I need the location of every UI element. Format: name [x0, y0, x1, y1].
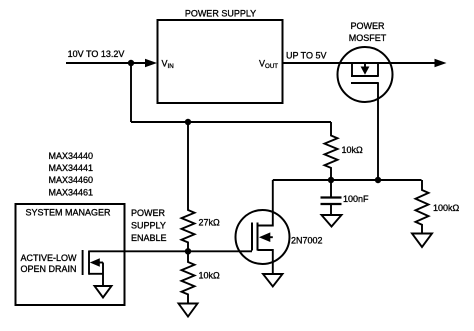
svg-text:POWER: POWER	[131, 208, 166, 218]
wire VOUT rail	[283, 62, 435, 64]
svg-text:SYSTEM MANAGER: SYSTEM MANAGER	[25, 208, 111, 218]
wire enable line	[89, 250, 252, 252]
node junction enable	[185, 248, 191, 254]
capacitor C1 100nF lead	[330, 180, 332, 197]
svg-text:100kΩ: 100kΩ	[433, 203, 460, 213]
svg-text:SUPPLY: SUPPLY	[131, 221, 166, 231]
svg-text:OPEN DRAIN: OPEN DRAIN	[21, 264, 77, 274]
capacitor C1 top plate	[321, 196, 342, 198]
resistor 100k	[416, 180, 429, 234]
transistor Q3 body arrow	[99, 262, 104, 264]
ground below Q2	[263, 274, 283, 287]
transistor Q3 channel bar	[88, 251, 90, 275]
capacitor C1 lower lead	[330, 204, 332, 215]
resistor 27k	[182, 122, 195, 251]
node junction gate	[375, 177, 381, 183]
transistor Q2 channel bar	[257, 223, 259, 251]
svg-text:10kΩ: 10kΩ	[342, 145, 364, 155]
transistor Q1 channel bar	[351, 75, 379, 77]
arrowhead output	[435, 59, 447, 67]
transistor Q2 gate bar	[251, 223, 253, 251]
svg-text:27kΩ: 27kΩ	[199, 218, 221, 228]
svg-text:MAX34460: MAX34460	[49, 175, 94, 185]
node junction 27k branch	[185, 119, 191, 125]
svg-text:100nF: 100nF	[343, 194, 369, 204]
transistor Q1 drain leg	[377, 63, 379, 76]
resistor 10k top right	[325, 122, 338, 180]
arrowhead into VIN	[145, 59, 157, 67]
wire input to VIN	[66, 62, 146, 64]
transistor Q2 source stub	[258, 250, 273, 274]
transistor Q2 2N7002 circle	[236, 210, 290, 264]
wire rail y180	[273, 179, 422, 181]
svg-text:ACTIVE-LOW: ACTIVE-LOW	[21, 253, 78, 263]
transistor Q1 body arrow	[364, 63, 366, 69]
transistor Q3 open drain gate bar	[82, 250, 84, 275]
wire input branch down	[130, 63, 132, 122]
system manager box U2	[16, 204, 125, 305]
svg-text:MAX34461: MAX34461	[49, 187, 94, 197]
svg-text:2N7002: 2N7002	[291, 236, 323, 246]
power supply box U1	[158, 20, 283, 103]
node junction cap	[328, 177, 334, 183]
svg-text:POWER: POWER	[350, 21, 385, 31]
ground below 10k	[179, 304, 198, 317]
svg-text:MAX34440: MAX34440	[49, 151, 94, 161]
transistor Q1 source leg	[351, 63, 353, 76]
transistor Q2 body arrow	[268, 236, 273, 238]
svg-text:MAX34441: MAX34441	[49, 163, 94, 173]
svg-text:10V TO 13.2V: 10V TO 13.2V	[68, 49, 125, 59]
ground below C1	[322, 215, 342, 227]
svg-text:UP TO 5V: UP TO 5V	[286, 51, 327, 61]
transistor Q1 gate bar	[351, 82, 379, 84]
svg-text:10kΩ: 10kΩ	[199, 271, 221, 281]
wire Q3 source down	[102, 263, 104, 287]
transistor Q1 power mosfet circle	[338, 47, 393, 102]
capacitor C1 bottom plate	[321, 203, 342, 205]
transistor Q3 source stub	[89, 273, 103, 275]
transistor Q2 drain stub	[258, 180, 273, 226]
node junction input branch	[128, 60, 134, 66]
svg-text:ENABLE: ENABLE	[131, 233, 167, 243]
wire rail y122	[131, 121, 331, 123]
svg-text:POWER SUPPLY: POWER SUPPLY	[185, 9, 256, 19]
resistor 10k bottom	[182, 251, 195, 303]
ground below 100k	[412, 234, 432, 248]
ground inside manager box	[95, 286, 112, 298]
wire Q1 gate lead down	[377, 83, 379, 180]
svg-text:MOSFET: MOSFET	[349, 33, 387, 43]
